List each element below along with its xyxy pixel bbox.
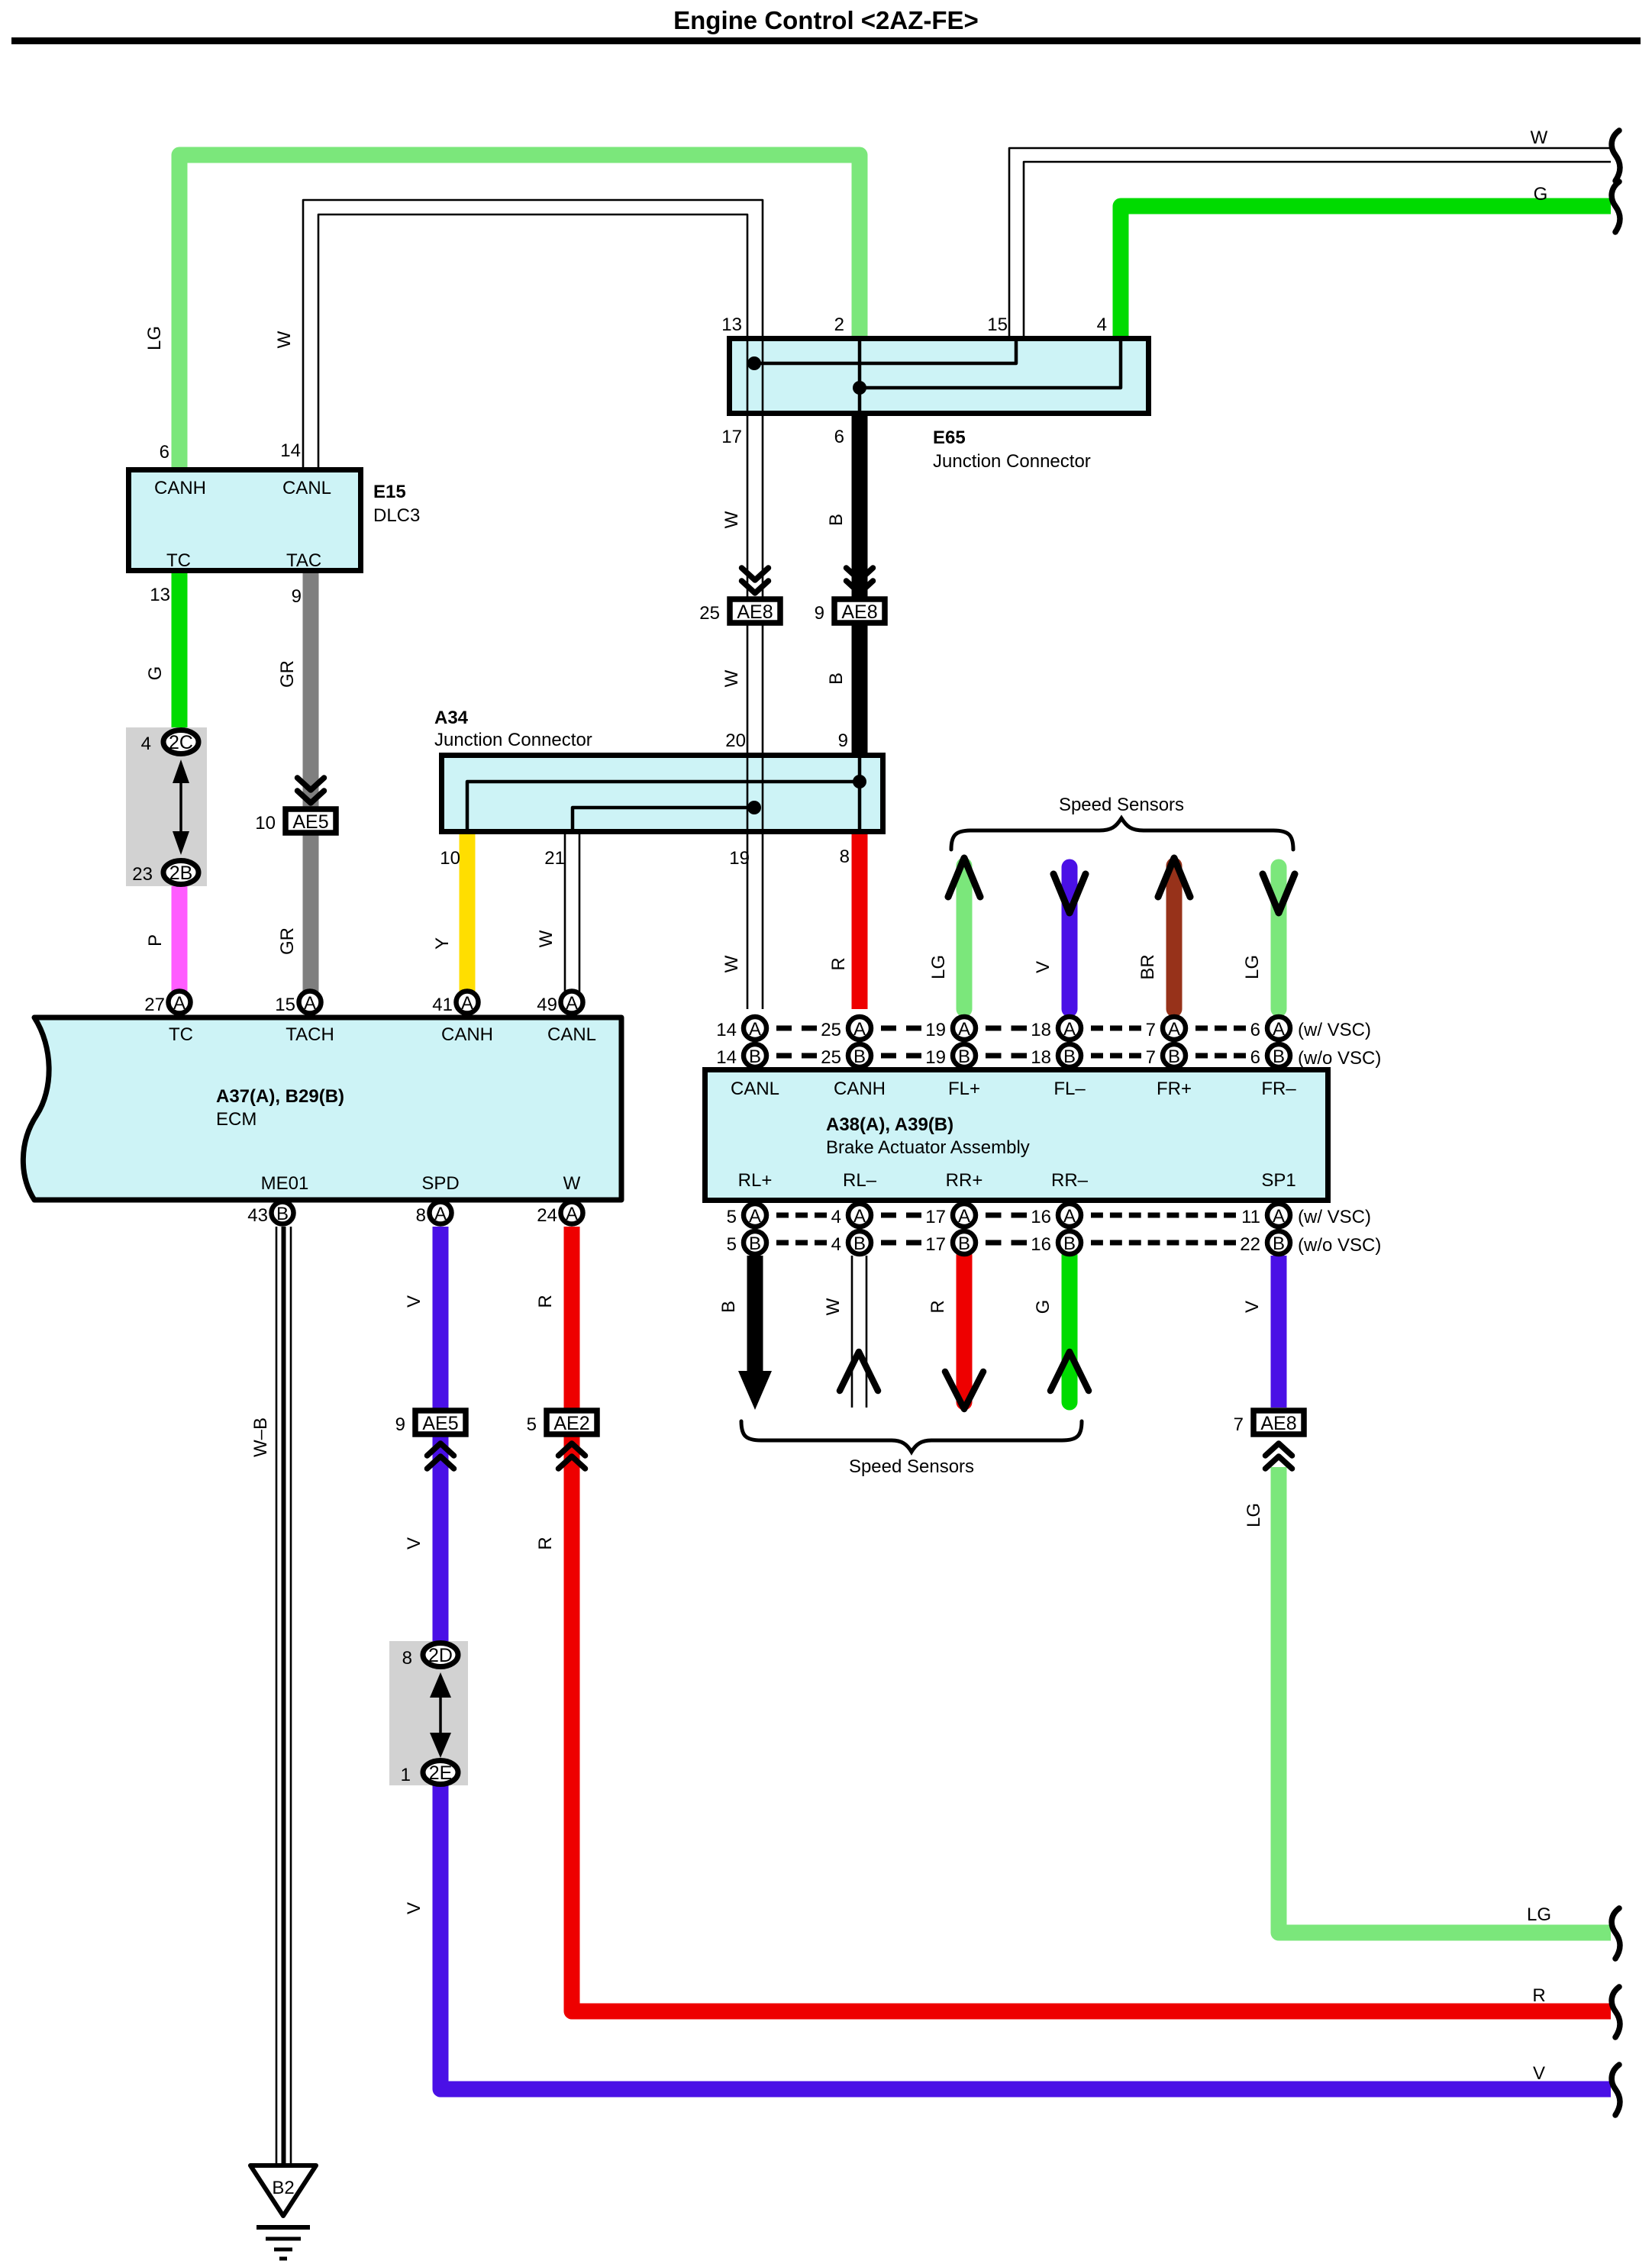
svg-text:5: 5 <box>527 1414 537 1435</box>
svg-text:V: V <box>1033 961 1053 973</box>
svg-text:9: 9 <box>815 603 824 624</box>
svg-text:V: V <box>404 1902 424 1914</box>
svg-text:B: B <box>1273 1046 1285 1067</box>
svg-text:A: A <box>304 993 316 1014</box>
svg-text:FL+: FL+ <box>948 1079 980 1099</box>
svg-text:15: 15 <box>987 314 1008 335</box>
svg-text:G: G <box>145 666 166 681</box>
svg-text:B: B <box>826 672 847 685</box>
svg-text:A: A <box>1063 1019 1076 1040</box>
svg-text:49: 49 <box>537 995 557 1015</box>
svg-text:6: 6 <box>1250 1047 1260 1068</box>
svg-text:R: R <box>535 1537 556 1549</box>
svg-text:8: 8 <box>840 846 850 867</box>
svg-text:A: A <box>1168 1019 1180 1040</box>
svg-text:E65: E65 <box>933 427 966 448</box>
svg-text:7: 7 <box>1234 1414 1244 1435</box>
svg-text:Speed Sensors: Speed Sensors <box>1059 795 1184 815</box>
svg-text:TC: TC <box>166 550 191 571</box>
svg-text:A: A <box>749 1206 761 1227</box>
svg-text:17: 17 <box>925 1234 946 1255</box>
svg-text:6: 6 <box>160 442 169 463</box>
svg-text:18: 18 <box>1031 1020 1051 1040</box>
svg-text:AE2: AE2 <box>553 1413 589 1434</box>
svg-text:B: B <box>826 514 847 526</box>
svg-text:W–B: W–B <box>250 1417 271 1457</box>
svg-text:23: 23 <box>132 864 153 885</box>
svg-text:R: R <box>928 1300 948 1313</box>
svg-text:LG: LG <box>928 955 949 979</box>
svg-text:V: V <box>1533 2063 1545 2084</box>
svg-text:B: B <box>853 1233 866 1254</box>
svg-text:W: W <box>536 930 557 947</box>
svg-text:AE8: AE8 <box>737 601 773 623</box>
svg-text:LG: LG <box>144 326 165 350</box>
svg-text:GR: GR <box>277 660 298 688</box>
svg-text:25: 25 <box>821 1047 841 1068</box>
svg-text:FR+: FR+ <box>1157 1079 1192 1099</box>
svg-text:10: 10 <box>440 848 460 869</box>
svg-text:A: A <box>1273 1206 1285 1227</box>
svg-text:AE8: AE8 <box>1260 1413 1296 1434</box>
svg-text:GR: GR <box>277 927 298 955</box>
svg-text:7: 7 <box>1146 1020 1156 1040</box>
svg-text:RL–: RL– <box>843 1170 877 1191</box>
svg-text:8: 8 <box>416 1205 426 1226</box>
svg-text:4: 4 <box>1097 314 1107 335</box>
svg-text:A: A <box>958 1206 970 1227</box>
svg-text:A: A <box>853 1019 866 1040</box>
svg-text:Brake Actuator Assembly: Brake Actuator Assembly <box>826 1137 1030 1158</box>
svg-text:11: 11 <box>1241 1207 1260 1227</box>
svg-text:A: A <box>566 993 578 1014</box>
svg-text:B: B <box>958 1233 970 1254</box>
svg-text:14: 14 <box>280 440 301 461</box>
svg-text:Engine Control <2AZ-FE>: Engine Control <2AZ-FE> <box>673 6 979 34</box>
svg-text:4: 4 <box>831 1207 841 1227</box>
svg-text:A: A <box>173 993 186 1014</box>
svg-text:SP1: SP1 <box>1261 1170 1295 1191</box>
svg-text:R: R <box>828 957 849 970</box>
svg-text:V: V <box>1242 1301 1263 1313</box>
svg-text:V: V <box>404 1537 424 1549</box>
svg-text:B: B <box>1273 1233 1285 1254</box>
svg-text:Speed Sensors: Speed Sensors <box>849 1456 974 1477</box>
svg-text:TC: TC <box>169 1024 193 1045</box>
svg-text:A: A <box>434 1204 447 1224</box>
svg-text:B: B <box>1063 1046 1076 1067</box>
svg-text:LG: LG <box>1527 1904 1551 1925</box>
svg-text:A37(A), B29(B): A37(A), B29(B) <box>216 1086 344 1107</box>
svg-text:FL–: FL– <box>1053 1079 1086 1099</box>
svg-text:24: 24 <box>537 1205 557 1226</box>
svg-text:G: G <box>1534 184 1548 205</box>
svg-text:(w/o VSC): (w/o VSC) <box>1298 1235 1381 1256</box>
svg-text:A: A <box>853 1206 866 1227</box>
svg-text:18: 18 <box>1031 1047 1051 1068</box>
svg-text:ECM: ECM <box>216 1109 257 1130</box>
svg-text:A: A <box>1063 1206 1076 1227</box>
svg-text:RR–: RR– <box>1051 1170 1089 1191</box>
svg-text:41: 41 <box>432 995 453 1015</box>
svg-text:2E: 2E <box>429 1762 453 1784</box>
svg-text:A: A <box>1273 1019 1285 1040</box>
svg-text:B: B <box>1168 1046 1180 1067</box>
svg-text:9: 9 <box>292 586 302 607</box>
svg-text:R: R <box>1532 1985 1545 2006</box>
svg-text:5: 5 <box>727 1234 737 1255</box>
svg-text:CANH: CANH <box>441 1024 493 1045</box>
svg-text:43: 43 <box>247 1205 268 1226</box>
svg-text:7: 7 <box>1146 1047 1156 1068</box>
svg-text:BR: BR <box>1137 954 1158 979</box>
svg-text:6: 6 <box>834 427 844 447</box>
svg-text:22: 22 <box>1240 1234 1260 1255</box>
svg-text:14: 14 <box>716 1020 737 1040</box>
svg-text:LG: LG <box>1242 955 1263 979</box>
svg-text:B: B <box>853 1046 866 1067</box>
svg-text:2: 2 <box>834 314 844 335</box>
svg-text:DLC3: DLC3 <box>373 505 420 526</box>
svg-text:A: A <box>566 1204 578 1224</box>
svg-text:17: 17 <box>925 1207 946 1227</box>
svg-text:B: B <box>958 1046 970 1067</box>
svg-text:2B: 2B <box>169 863 193 884</box>
svg-text:20: 20 <box>725 730 746 751</box>
svg-text:B: B <box>749 1046 761 1067</box>
svg-text:V: V <box>404 1295 424 1308</box>
svg-text:CANH: CANH <box>154 478 206 498</box>
svg-text:21: 21 <box>544 848 565 869</box>
svg-text:CANL: CANL <box>731 1079 779 1099</box>
svg-text:17: 17 <box>721 427 742 447</box>
svg-text:W: W <box>721 511 742 528</box>
svg-text:(w/o VSC): (w/o VSC) <box>1298 1048 1381 1069</box>
svg-text:AE5: AE5 <box>422 1413 458 1434</box>
svg-text:R: R <box>535 1295 556 1308</box>
svg-text:A: A <box>749 1019 761 1040</box>
svg-text:1: 1 <box>401 1765 411 1785</box>
svg-text:AE5: AE5 <box>292 811 328 833</box>
svg-text:Junction Connector: Junction Connector <box>434 730 592 750</box>
svg-text:B: B <box>1063 1233 1076 1254</box>
svg-text:A38(A), A39(B): A38(A), A39(B) <box>826 1114 953 1135</box>
svg-text:16: 16 <box>1031 1207 1051 1227</box>
svg-text:16: 16 <box>1031 1234 1051 1255</box>
svg-text:RR+: RR+ <box>946 1170 983 1191</box>
svg-text:TAC: TAC <box>286 550 321 571</box>
svg-text:FR–: FR– <box>1261 1079 1296 1099</box>
svg-text:8: 8 <box>402 1648 412 1669</box>
svg-text:CANL: CANL <box>282 478 331 498</box>
svg-text:10: 10 <box>255 813 276 834</box>
svg-text:B: B <box>276 1204 289 1224</box>
svg-text:E15: E15 <box>373 482 406 502</box>
svg-text:LG: LG <box>1244 1503 1264 1527</box>
svg-text:W: W <box>823 1298 844 1315</box>
svg-text:P: P <box>145 934 166 946</box>
svg-text:2C: 2C <box>169 732 193 753</box>
svg-text:15: 15 <box>275 995 295 1015</box>
svg-text:4: 4 <box>831 1234 841 1255</box>
svg-text:19: 19 <box>729 848 750 869</box>
svg-text:27: 27 <box>144 995 165 1015</box>
svg-text:25: 25 <box>821 1020 841 1040</box>
svg-text:Y: Y <box>432 937 453 950</box>
svg-text:19: 19 <box>925 1020 946 1040</box>
svg-text:B2: B2 <box>272 2178 294 2198</box>
svg-text:13: 13 <box>150 585 170 605</box>
svg-text:14: 14 <box>716 1047 737 1068</box>
svg-text:CANH: CANH <box>834 1079 886 1099</box>
svg-text:W: W <box>721 669 742 687</box>
svg-text:(w/ VSC): (w/ VSC) <box>1298 1020 1371 1040</box>
svg-text:9: 9 <box>838 730 848 751</box>
svg-text:W: W <box>563 1173 581 1194</box>
svg-text:A: A <box>958 1019 970 1040</box>
svg-text:13: 13 <box>721 314 742 335</box>
svg-text:ME01: ME01 <box>261 1173 309 1194</box>
svg-text:B: B <box>718 1301 739 1313</box>
svg-text:B: B <box>749 1233 761 1254</box>
svg-text:6: 6 <box>1250 1020 1260 1040</box>
svg-text:(w/ VSC): (w/ VSC) <box>1298 1207 1371 1227</box>
svg-text:19: 19 <box>925 1047 946 1068</box>
svg-text:W: W <box>1531 127 1548 148</box>
svg-text:4: 4 <box>141 734 151 754</box>
svg-text:25: 25 <box>699 603 720 624</box>
svg-text:SPD: SPD <box>421 1173 459 1194</box>
svg-text:9: 9 <box>395 1414 405 1435</box>
svg-text:CANL: CANL <box>547 1024 596 1045</box>
svg-text:RL+: RL+ <box>738 1170 773 1191</box>
svg-text:Junction Connector: Junction Connector <box>933 451 1091 472</box>
svg-text:G: G <box>1033 1300 1053 1314</box>
svg-text:A34: A34 <box>434 708 469 728</box>
svg-text:TACH: TACH <box>286 1024 334 1045</box>
svg-text:5: 5 <box>727 1207 737 1227</box>
svg-text:W: W <box>274 331 295 348</box>
svg-text:AE8: AE8 <box>841 601 877 623</box>
svg-text:A: A <box>461 993 473 1014</box>
svg-text:W: W <box>721 955 742 972</box>
svg-text:2D: 2D <box>428 1645 453 1666</box>
